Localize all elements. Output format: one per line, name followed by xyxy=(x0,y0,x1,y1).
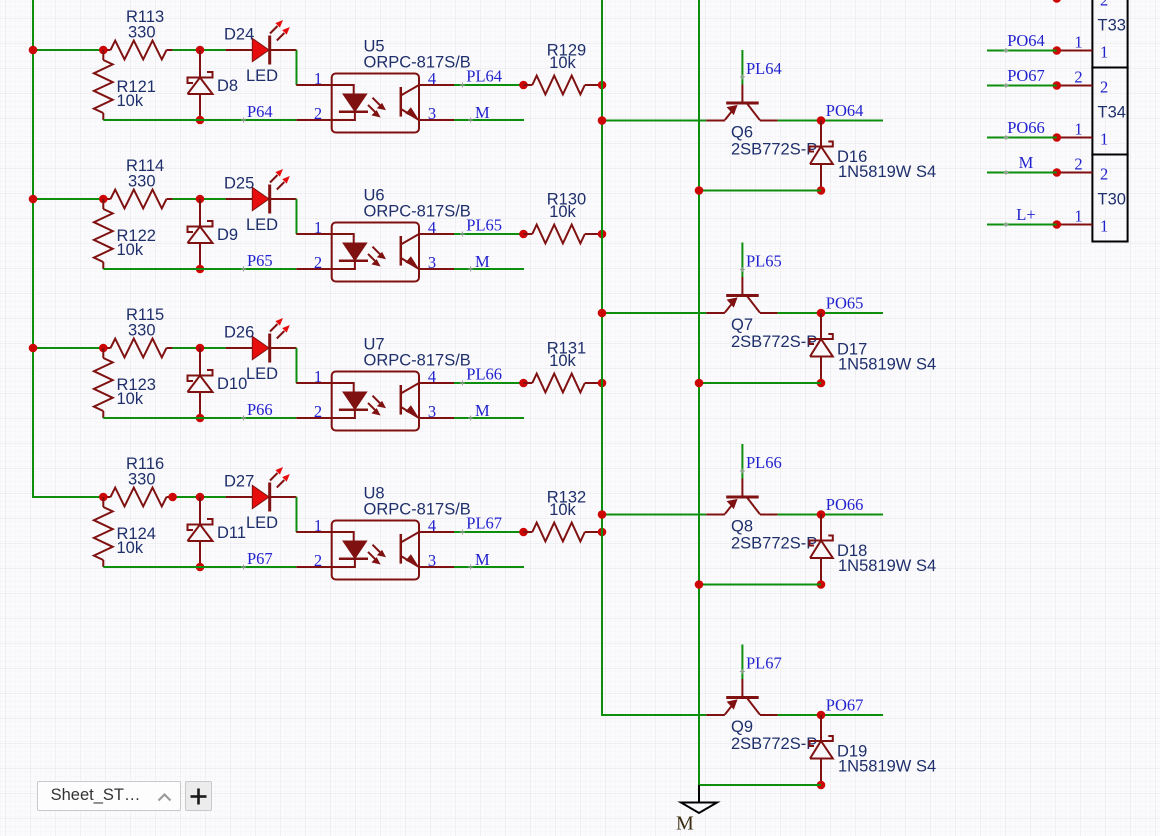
svg-text:LED: LED xyxy=(246,216,278,234)
junction xyxy=(598,528,607,537)
svg-text:2SB772S-P: 2SB772S-P xyxy=(731,141,817,159)
transistor Q8 xyxy=(706,479,777,515)
connector T33 xyxy=(1092,0,1127,68)
net label M xyxy=(468,267,473,272)
LED D26 xyxy=(226,318,297,363)
svg-text:M: M xyxy=(475,401,490,420)
svg-text:M: M xyxy=(475,103,490,122)
svg-text:3: 3 xyxy=(428,402,436,421)
svg-text:PL66: PL66 xyxy=(466,364,502,383)
junction xyxy=(1053,46,1062,55)
junction xyxy=(1053,133,1062,142)
svg-text:D11: D11 xyxy=(217,524,246,542)
junction xyxy=(99,344,108,353)
junction xyxy=(1053,220,1062,229)
LED D24 xyxy=(226,20,297,65)
svg-text:1: 1 xyxy=(1100,217,1108,236)
net label PL64 xyxy=(460,83,465,88)
diode D18 xyxy=(810,515,833,585)
svg-text:1N5819W S4: 1N5819W S4 xyxy=(838,356,936,374)
svg-text:330: 330 xyxy=(128,322,156,340)
junction xyxy=(598,116,607,125)
junction xyxy=(817,510,826,519)
wire xyxy=(454,531,524,533)
wire xyxy=(103,566,296,568)
net label PL65 xyxy=(460,232,465,237)
svg-text:2: 2 xyxy=(1074,155,1082,174)
resistor R114 xyxy=(103,190,172,209)
junction xyxy=(196,493,205,502)
resistor R115 xyxy=(103,339,172,358)
svg-text:M: M xyxy=(475,252,490,271)
svg-text:P66: P66 xyxy=(247,400,273,419)
net label M xyxy=(1004,170,1009,175)
junction xyxy=(519,230,528,239)
svg-text:2: 2 xyxy=(1074,68,1082,87)
wire xyxy=(699,584,821,586)
net label M xyxy=(468,118,473,123)
wire xyxy=(454,382,524,384)
svg-text:1: 1 xyxy=(1074,207,1082,226)
svg-text:2: 2 xyxy=(314,551,322,570)
wire xyxy=(778,312,883,314)
wire xyxy=(602,120,706,122)
junction xyxy=(196,414,205,423)
wire xyxy=(699,382,821,384)
resistor R124 xyxy=(94,497,113,567)
net label P66 xyxy=(241,416,246,421)
svg-text:PL65: PL65 xyxy=(746,252,782,271)
svg-text:D24: D24 xyxy=(224,26,254,44)
resistor R123 xyxy=(94,348,113,418)
svg-text:2SB772S-P: 2SB772S-P xyxy=(731,333,817,351)
svg-text:330: 330 xyxy=(128,24,156,42)
junction xyxy=(817,186,826,195)
wire xyxy=(741,645,743,680)
wire xyxy=(987,172,1057,174)
junction xyxy=(598,379,607,388)
wire xyxy=(103,268,296,270)
junction xyxy=(196,116,205,125)
svg-text:10k: 10k xyxy=(549,501,576,519)
net label PL67 xyxy=(460,530,465,535)
wire xyxy=(33,198,103,200)
svg-text:10k: 10k xyxy=(549,203,576,221)
wire xyxy=(454,233,524,235)
junction xyxy=(29,46,38,55)
svg-text:LED: LED xyxy=(246,67,278,85)
svg-text:2SB772S-P: 2SB772S-P xyxy=(731,535,817,553)
svg-text:PO65: PO65 xyxy=(826,294,864,313)
net label PL67 xyxy=(740,669,745,674)
junction xyxy=(598,510,607,519)
svg-text:P67: P67 xyxy=(247,549,273,568)
svg-text:3: 3 xyxy=(428,104,436,123)
svg-text:Q9: Q9 xyxy=(731,718,753,736)
transistor Q9 xyxy=(706,679,777,715)
junction xyxy=(817,309,826,318)
wire xyxy=(602,312,706,314)
svg-text:PL67: PL67 xyxy=(746,654,782,673)
diode D8 xyxy=(188,50,213,120)
transistor Q6 xyxy=(706,85,777,121)
junction xyxy=(695,379,704,388)
svg-text:D9: D9 xyxy=(217,226,238,244)
svg-text:PO64: PO64 xyxy=(826,101,864,120)
svg-text:10k: 10k xyxy=(117,539,144,557)
junction xyxy=(817,379,826,388)
net label PL66 xyxy=(460,381,465,386)
junction xyxy=(99,46,108,55)
svg-text:M: M xyxy=(475,550,490,569)
resistor R122 xyxy=(94,199,113,269)
svg-text:PL64: PL64 xyxy=(746,59,782,78)
svg-text:LED: LED xyxy=(246,514,278,532)
svg-text:LED: LED xyxy=(246,365,278,383)
svg-text:D26: D26 xyxy=(224,324,254,342)
junction xyxy=(29,195,38,204)
svg-text:PO66: PO66 xyxy=(1007,118,1045,137)
svg-text:1: 1 xyxy=(314,367,322,386)
net label PO66 xyxy=(1004,135,1009,140)
wire xyxy=(454,268,524,270)
svg-text:10k: 10k xyxy=(549,54,576,72)
wire xyxy=(173,496,226,498)
net label PL65 xyxy=(740,267,745,272)
wire xyxy=(173,49,226,51)
svg-text:D27: D27 xyxy=(224,473,254,491)
svg-text:P64: P64 xyxy=(247,102,273,121)
junction xyxy=(519,81,528,90)
svg-text:ORPC-817S/B: ORPC-817S/B xyxy=(364,203,471,221)
net label L+ xyxy=(1004,222,1009,227)
wire xyxy=(296,348,298,383)
junction xyxy=(817,781,826,790)
wire xyxy=(778,120,883,122)
svg-text:ORPC-817S/B: ORPC-817S/B xyxy=(364,54,471,72)
svg-text:T33: T33 xyxy=(1098,17,1126,35)
svg-text:330: 330 xyxy=(128,173,156,191)
junction xyxy=(817,711,826,720)
wire xyxy=(173,347,226,349)
svg-text:2SB772S-P: 2SB772S-P xyxy=(731,735,817,753)
junction xyxy=(196,46,205,55)
wire xyxy=(602,0,706,715)
svg-text:1: 1 xyxy=(1100,130,1108,149)
wire xyxy=(103,417,296,419)
svg-text:T30: T30 xyxy=(1098,191,1126,209)
wire xyxy=(699,190,821,192)
svg-text:D8: D8 xyxy=(217,77,238,95)
LED D25 xyxy=(226,169,297,214)
svg-text:PO67: PO67 xyxy=(1007,66,1045,85)
wire xyxy=(778,514,883,516)
svg-text:1: 1 xyxy=(314,516,322,535)
svg-text:1: 1 xyxy=(314,218,322,237)
wire xyxy=(33,0,103,497)
svg-text:1: 1 xyxy=(1074,120,1082,139)
junction xyxy=(99,195,108,204)
svg-text:Q6: Q6 xyxy=(731,124,753,142)
svg-text:PO66: PO66 xyxy=(826,495,864,514)
pin 2 of T34 xyxy=(1057,85,1093,87)
junction xyxy=(99,493,108,502)
connector T30 xyxy=(1092,155,1127,242)
svg-text:4: 4 xyxy=(428,516,436,535)
wire xyxy=(741,243,743,278)
svg-text:1: 1 xyxy=(1100,43,1108,62)
svg-text:Q7: Q7 xyxy=(731,316,753,334)
svg-text:ORPC-817S/B: ORPC-817S/B xyxy=(364,352,471,370)
junction xyxy=(1053,0,1062,3)
junction xyxy=(1053,168,1062,177)
wire xyxy=(987,224,1057,226)
junction xyxy=(519,528,528,537)
svg-text:2: 2 xyxy=(314,402,322,421)
net label PO67 xyxy=(1004,83,1009,88)
svg-text:T34: T34 xyxy=(1098,104,1126,122)
svg-text:PL65: PL65 xyxy=(466,215,502,234)
junction xyxy=(196,344,205,353)
svg-text:3: 3 xyxy=(428,551,436,570)
svg-text:1N5819W S4: 1N5819W S4 xyxy=(838,557,936,575)
sheet tab button xyxy=(37,781,182,811)
wire xyxy=(602,514,706,516)
wire xyxy=(296,199,298,234)
wire xyxy=(454,566,524,568)
wire xyxy=(296,50,298,85)
wire xyxy=(33,49,103,51)
svg-text:1: 1 xyxy=(314,69,322,88)
junction xyxy=(598,309,607,318)
svg-text:10k: 10k xyxy=(117,92,144,110)
junction xyxy=(598,81,607,90)
resistor R129 xyxy=(524,76,603,95)
svg-text:2: 2 xyxy=(1100,0,1108,10)
pin 1 of T30 xyxy=(1057,224,1093,226)
svg-text:D25: D25 xyxy=(224,175,254,193)
junction xyxy=(1053,81,1062,90)
svg-text:PL64: PL64 xyxy=(466,66,502,85)
svg-text:4: 4 xyxy=(428,69,436,88)
pin 1 of T34 xyxy=(1057,137,1093,139)
junction xyxy=(695,580,704,589)
resistor R130 xyxy=(524,225,603,244)
svg-text:ORPC-817S/B: ORPC-817S/B xyxy=(364,501,471,519)
svg-text:10k: 10k xyxy=(549,352,576,370)
wire xyxy=(173,198,226,200)
junction xyxy=(196,265,205,274)
wire xyxy=(454,84,524,86)
junction xyxy=(29,344,38,353)
pin 2 of T30 xyxy=(1057,172,1093,174)
net label P67 xyxy=(241,565,246,570)
svg-text:330: 330 xyxy=(128,471,156,489)
diode D16 xyxy=(810,121,833,191)
op-amp U5 optocoupler xyxy=(296,74,454,133)
net label P64 xyxy=(241,118,246,123)
pin 1 of T33 xyxy=(1057,50,1093,52)
op-amp U6 optocoupler xyxy=(296,223,454,282)
svg-text:2: 2 xyxy=(1100,78,1108,97)
junction xyxy=(695,186,704,195)
wire xyxy=(698,0,700,785)
junction xyxy=(519,379,528,388)
svg-text:1N5819W S4: 1N5819W S4 xyxy=(838,758,936,776)
wire xyxy=(699,784,821,786)
wire xyxy=(454,119,524,121)
wire xyxy=(296,497,298,532)
net label PL64 xyxy=(740,75,745,80)
op-amp U8 optocoupler xyxy=(296,521,454,580)
add sheet button xyxy=(185,781,212,811)
resistor R131 xyxy=(524,374,603,393)
resistor R113 xyxy=(103,41,172,60)
wire xyxy=(778,714,883,716)
svg-text:1N5819W S4: 1N5819W S4 xyxy=(838,163,936,181)
wire xyxy=(103,119,296,121)
LED D27 xyxy=(226,467,297,512)
net label PL66 xyxy=(740,469,745,474)
svg-text:3: 3 xyxy=(428,253,436,272)
junction xyxy=(196,195,205,204)
connector T34 xyxy=(1092,68,1127,155)
svg-text:10k: 10k xyxy=(117,390,144,408)
wire xyxy=(454,417,524,419)
svg-text:4: 4 xyxy=(428,367,436,386)
wire xyxy=(987,85,1057,87)
junction xyxy=(168,493,177,502)
svg-text:Q8: Q8 xyxy=(731,518,753,536)
junction xyxy=(817,116,826,125)
diode D9 xyxy=(188,199,213,269)
net label M xyxy=(468,416,473,421)
wire xyxy=(987,50,1057,52)
svg-text:PO67: PO67 xyxy=(826,696,864,715)
svg-text:PL66: PL66 xyxy=(746,453,782,472)
diode D11 xyxy=(188,497,213,567)
svg-text:2: 2 xyxy=(1100,165,1108,184)
junction xyxy=(817,580,826,589)
net label PO64 xyxy=(1004,48,1009,53)
wire xyxy=(741,50,743,85)
ground xyxy=(681,785,717,813)
junction xyxy=(598,230,607,239)
svg-text:D10: D10 xyxy=(217,375,247,393)
svg-text:2: 2 xyxy=(314,104,322,123)
resistor R121 xyxy=(94,50,113,120)
wire xyxy=(33,347,103,349)
svg-text:P65: P65 xyxy=(247,251,273,270)
svg-text:PO64: PO64 xyxy=(1007,31,1045,50)
diode D19 xyxy=(810,715,833,785)
svg-text:10k: 10k xyxy=(117,241,144,259)
svg-text:L+: L+ xyxy=(1016,205,1035,224)
wire xyxy=(987,137,1057,139)
diode D10 xyxy=(188,348,213,418)
resistor R132 xyxy=(524,523,603,542)
op-amp U7 optocoupler xyxy=(296,372,454,431)
wire xyxy=(741,444,743,479)
diode D17 xyxy=(810,313,833,383)
net label P65 xyxy=(241,267,246,272)
svg-text:PL67: PL67 xyxy=(466,513,502,532)
resistor R116 xyxy=(103,488,172,507)
svg-text:4: 4 xyxy=(428,218,436,237)
svg-text:M: M xyxy=(1019,153,1034,172)
junction xyxy=(196,563,205,572)
transistor Q7 xyxy=(706,277,777,313)
net label M xyxy=(468,565,473,570)
svg-text:1: 1 xyxy=(1074,33,1082,52)
svg-text:M: M xyxy=(676,813,694,835)
svg-text:2: 2 xyxy=(314,253,322,272)
